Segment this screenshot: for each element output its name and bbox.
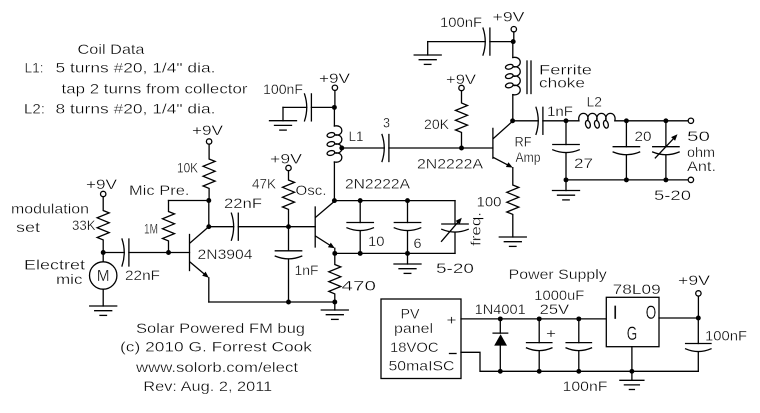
- svg-text:1000uF: 1000uF: [534, 288, 584, 303]
- svg-text:G: G: [627, 323, 638, 345]
- svg-text:Electret: Electret: [24, 258, 85, 273]
- svg-text:Power Supply: Power Supply: [509, 267, 607, 282]
- svg-text:M: M: [97, 268, 110, 285]
- svg-text:50: 50: [687, 129, 711, 144]
- svg-text:L1: L1: [349, 129, 364, 144]
- svg-text:www.solorb.com/elect: www.solorb.com/elect: [135, 360, 299, 375]
- svg-text:L2:: L2:: [24, 102, 45, 117]
- svg-text:+9V: +9V: [446, 72, 476, 87]
- svg-text:6: 6: [414, 236, 422, 251]
- svg-text:Rev: Aug. 2, 2011: Rev: Aug. 2, 2011: [143, 379, 272, 394]
- svg-text:Ant.: Ant.: [687, 159, 716, 174]
- svg-text:10: 10: [368, 234, 385, 249]
- svg-text:Solar Powered FM bug: Solar Powered FM bug: [136, 321, 305, 336]
- svg-text:freq.: freq.: [469, 212, 484, 246]
- svg-text:+9V: +9V: [319, 71, 350, 86]
- svg-text:50maISC: 50maISC: [389, 359, 455, 374]
- svg-text:mic: mic: [56, 272, 83, 287]
- svg-text:25V: 25V: [540, 302, 570, 317]
- svg-text:1nF: 1nF: [295, 263, 319, 278]
- svg-text:I: I: [613, 302, 618, 324]
- svg-text:470: 470: [342, 279, 377, 294]
- svg-text:3: 3: [383, 116, 390, 131]
- svg-text:1M: 1M: [144, 222, 158, 237]
- svg-text:2N2222A: 2N2222A: [345, 177, 411, 192]
- svg-text:27: 27: [574, 156, 593, 171]
- svg-text:18VOC: 18VOC: [390, 340, 439, 355]
- svg-text:Coil Data: Coil Data: [78, 42, 146, 57]
- svg-text:panel: panel: [394, 321, 433, 336]
- svg-text:20K: 20K: [424, 117, 449, 132]
- svg-text:+9V: +9V: [493, 10, 525, 25]
- svg-text:100nF: 100nF: [563, 379, 608, 394]
- svg-text:100nF: 100nF: [263, 82, 303, 97]
- svg-text:20: 20: [635, 129, 652, 144]
- svg-text:5-20: 5-20: [436, 261, 475, 276]
- svg-text:2N2222A: 2N2222A: [417, 157, 484, 172]
- svg-text:+9V: +9V: [86, 177, 117, 192]
- svg-text:1nF: 1nF: [547, 104, 573, 119]
- svg-text:33K: 33K: [72, 218, 96, 233]
- svg-text:100nF: 100nF: [705, 329, 747, 344]
- svg-text:set: set: [16, 220, 40, 235]
- svg-text:+: +: [546, 326, 556, 341]
- svg-text:choke: choke: [539, 76, 585, 91]
- svg-text:+9V: +9V: [270, 152, 302, 167]
- svg-text:+9V: +9V: [678, 273, 710, 288]
- svg-text:(c) 2010 G. Forrest Cook: (c) 2010 G. Forrest Cook: [120, 340, 312, 355]
- svg-text:Mic Pre.: Mic Pre.: [129, 183, 190, 198]
- svg-text:10K: 10K: [177, 161, 198, 176]
- svg-text:tap 2 turns from collector: tap 2 turns from collector: [62, 82, 249, 97]
- svg-text:22nF: 22nF: [224, 196, 262, 211]
- svg-text:L1:: L1:: [25, 61, 44, 76]
- svg-text:Osc.: Osc.: [296, 183, 327, 198]
- svg-text:8 turns #20, 1/4" dia.: 8 turns #20, 1/4" dia.: [56, 102, 216, 117]
- svg-text:22nF: 22nF: [125, 268, 160, 283]
- svg-text:O: O: [646, 302, 657, 324]
- svg-text:47K: 47K: [252, 177, 276, 192]
- svg-text:100: 100: [477, 195, 502, 210]
- svg-text:PV: PV: [401, 306, 420, 321]
- svg-text:Amp: Amp: [516, 150, 541, 165]
- svg-text:78L09: 78L09: [613, 282, 661, 297]
- svg-text:+: +: [447, 313, 457, 328]
- svg-text:modulation: modulation: [11, 202, 89, 217]
- svg-text:5 turns #20, 1/4" dia.: 5 turns #20, 1/4" dia.: [56, 61, 216, 76]
- svg-text:1N4001: 1N4001: [475, 302, 526, 317]
- svg-text:RF: RF: [515, 135, 532, 150]
- svg-text:2N3904: 2N3904: [198, 247, 253, 262]
- svg-text:L2: L2: [587, 95, 603, 110]
- svg-text:100nF: 100nF: [440, 15, 482, 30]
- svg-text:ohm: ohm: [687, 145, 715, 160]
- svg-text:5-20: 5-20: [654, 188, 692, 203]
- svg-text:+9V: +9V: [192, 123, 223, 138]
